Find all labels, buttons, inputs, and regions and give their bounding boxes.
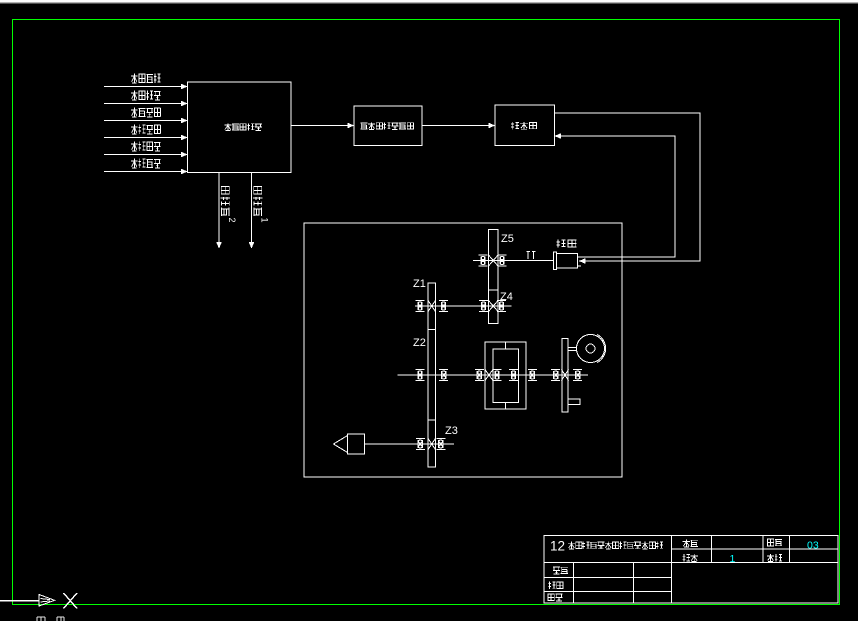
input signal label 1 [131, 74, 161, 84]
gear mesh cross housing-shaft3 [485, 370, 493, 381]
wire CNC to driver [422, 123, 495, 129]
controller box label [224, 123, 262, 130]
input signal label 6 [131, 159, 161, 169]
label quantity (shuliang) [683, 554, 698, 562]
svg-text:1: 1 [730, 553, 736, 565]
gear Z1 [428, 283, 436, 330]
bearing shaft4 right [436, 439, 445, 450]
wire motor to driver (feedback) [555, 133, 676, 257]
bottom clipped text marks [37, 617, 64, 621]
input signal label 2 [131, 91, 161, 101]
title block frame [544, 536, 838, 604]
CNC box label [360, 122, 414, 129]
value 1 [730, 553, 736, 565]
label material (cailiao) [767, 554, 782, 562]
wire driver to motor (drive) [555, 113, 701, 264]
bearing shaft3 left outer [416, 370, 425, 381]
CNC box (computer numeric control) [354, 106, 422, 146]
value 03 [807, 540, 819, 552]
clutch housing outer [485, 342, 526, 409]
UCS X mark [64, 593, 78, 609]
encoder disc [577, 334, 606, 362]
driver box [495, 105, 555, 146]
gear Z2 [428, 330, 436, 421]
label Z1 [413, 278, 426, 290]
bearing shaft1 left [479, 255, 488, 266]
solenoid 1 vertical label [253, 186, 269, 223]
shaft 1 (motor shaft) [473, 260, 554, 262]
plate foot [568, 399, 580, 405]
motor M [554, 252, 582, 270]
input signal label 3 [131, 108, 161, 118]
bearing shaft2 far-left [416, 301, 425, 312]
wire controller to CNC [291, 123, 354, 129]
controller box (tool-post controller) [188, 82, 292, 173]
svg-text:Z2: Z2 [413, 337, 426, 349]
bearing shaft2 mid-right [479, 301, 488, 312]
gearbox housing outline [304, 223, 622, 477]
label scale (bili) [683, 539, 698, 547]
gear Z5 [489, 230, 499, 291]
solenoid 2 vertical label [221, 186, 237, 223]
bearing shaft3 plate left [551, 370, 560, 381]
svg-text:Z1: Z1 [413, 278, 426, 290]
gear mesh cross Z4-shaft2 [489, 301, 499, 312]
coupling [527, 252, 536, 260]
bearing shaft1 right [498, 255, 507, 266]
label Z2 [413, 337, 426, 349]
shaft 4 (bottom) [365, 443, 455, 445]
input signal wire 1 [104, 84, 188, 90]
svg-text:1: 1 [260, 218, 270, 223]
label drawing no. (tuhao) [767, 539, 782, 546]
title number 12 [550, 539, 565, 554]
label design (sheji) [553, 567, 568, 574]
motor label [557, 240, 577, 248]
input signal wire 3 [104, 118, 188, 124]
svg-text:Z3: Z3 [445, 425, 458, 437]
bearing shaft3 plate right [573, 370, 582, 381]
label Z4 [500, 291, 513, 303]
gear mesh cross plate-shaft3 [562, 370, 569, 381]
svg-text:Z4: Z4 [500, 291, 513, 303]
bearing shaft4 left [416, 439, 425, 450]
bearing shaft3 left inner [439, 370, 448, 381]
gear Z4 [489, 290, 499, 324]
gear mesh cross Z3-shaft4 [428, 439, 436, 450]
gear mesh cross Z1-shaft2 [428, 301, 436, 312]
tool pointer body [334, 434, 365, 454]
bearing shaft3 housing right [528, 370, 537, 381]
drawing title text [568, 541, 663, 548]
UCS axis arrow [0, 595, 55, 607]
clutch housing inner [493, 349, 518, 403]
driver box label [511, 122, 537, 129]
label check (shenyue) [548, 594, 563, 601]
label Z5 [501, 233, 514, 245]
input signal label 5 [131, 142, 161, 152]
window top strip [0, 0, 858, 4]
bearing shaft2 far-right [497, 301, 506, 312]
disc stub [568, 348, 577, 351]
input signal wire 2 [104, 101, 188, 107]
bearing shaft3 housing left [475, 370, 484, 381]
svg-text:2: 2 [227, 218, 237, 223]
input signal wire 6 [104, 169, 188, 175]
shaft 3 (main) [398, 374, 589, 376]
svg-text:12: 12 [550, 539, 565, 554]
shaft 2 [415, 305, 512, 307]
svg-text:03: 03 [807, 540, 819, 552]
label draw (huitu) [548, 581, 563, 589]
title block grid lines [544, 536, 838, 604]
bearing shaft2 mid-left [439, 301, 448, 312]
svg-text:Z5: Z5 [501, 233, 514, 245]
input signal wire 5 [104, 152, 188, 158]
input signal label 4 [131, 125, 161, 135]
input signal wire 4 [104, 135, 188, 141]
label Z3 [445, 425, 458, 437]
gear mesh cross Z5-shaft1 [489, 255, 499, 266]
bearing shaft3 housing mid-left [493, 370, 502, 381]
wire to solenoid 1 [249, 173, 255, 249]
gear Z3 [428, 420, 436, 467]
encoder plate [562, 339, 568, 413]
bearing shaft3 housing mid-right [509, 370, 518, 381]
wire to solenoid 2 [216, 173, 222, 249]
